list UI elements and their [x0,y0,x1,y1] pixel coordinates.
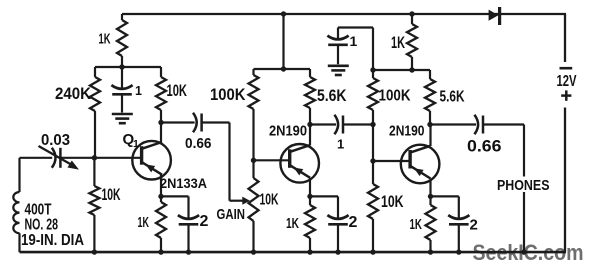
svg-text:1K: 1K [391,33,405,52]
svg-text:10K: 10K [260,192,279,209]
svg-text:100K: 100K [379,88,411,105]
svg-text:2N133A: 2N133A [160,175,207,191]
svg-text:100K: 100K [210,85,246,104]
svg-text:GAIN: GAIN [217,206,246,223]
svg-text:1K: 1K [410,216,423,233]
svg-text:0.03: 0.03 [41,132,70,149]
svg-text:PHONES: PHONES [497,177,550,194]
svg-text:19-IN. DIA: 19-IN. DIA [21,232,84,249]
svg-text:240K: 240K [55,84,92,103]
svg-text:1: 1 [133,138,139,150]
svg-text:0.66: 0.66 [185,135,212,152]
svg-text:0.66: 0.66 [467,137,502,156]
svg-text:2: 2 [200,213,209,230]
svg-text:1K: 1K [138,214,150,231]
svg-text:2N190: 2N190 [389,123,425,140]
svg-text:2N190: 2N190 [269,123,307,140]
svg-text:10K: 10K [167,81,188,100]
svg-text:NO. 28: NO. 28 [25,217,59,234]
svg-text:2: 2 [470,217,478,234]
svg-text:5.6K: 5.6K [440,89,465,106]
svg-text:1: 1 [135,84,142,98]
svg-text:1: 1 [350,33,358,49]
svg-text:1K: 1K [99,32,111,48]
svg-text:1K: 1K [286,215,299,232]
svg-text:12V: 12V [557,73,577,90]
svg-text:10K: 10K [381,193,404,211]
svg-text:10K: 10K [102,186,121,204]
svg-text:5.6K: 5.6K [317,86,347,105]
svg-text:2: 2 [349,214,358,231]
svg-text:1: 1 [337,137,344,152]
